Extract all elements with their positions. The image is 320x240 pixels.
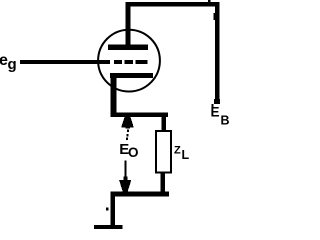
voltage arrow EO lower head: [119, 177, 131, 192]
cathode of V1: [110, 73, 153, 117]
label EB: [211, 104, 230, 128]
voltage arrow EO lower stem: [124, 161, 126, 180]
voltage arrow EO upper dashed stem: [126, 130, 129, 141]
scan artifact tick ground stem: [106, 208, 108, 211]
label ZL: [174, 145, 190, 163]
wire bottom (cathode return): [111, 191, 169, 196]
resistor ZL bottom lead: [160, 174, 165, 193]
voltage arrow EO upper head: [121, 117, 134, 129]
ground lead wire: [111, 196, 116, 226]
label eg: [0, 52, 17, 73]
scan artifact tick top: [208, 0, 211, 2]
resistor ZL top lead: [161, 117, 166, 131]
plate lead wire: [126, 2, 131, 46]
svg-text:B: B: [221, 114, 230, 128]
wire right vertical to EB terminal: [214, 2, 220, 104]
svg-text:g: g: [8, 56, 17, 73]
wire cathode node horizontal: [111, 112, 169, 117]
grid lead wire from eg: [20, 60, 110, 64]
grid (dashed) of V1: [114, 60, 148, 64]
scan artifact blob right wire: [213, 13, 215, 20]
plate (anode) of V1: [108, 45, 148, 51]
vacuum tube V1 envelope: [98, 30, 160, 92]
ground: [94, 225, 123, 229]
svg-text:L: L: [182, 148, 190, 162]
resistor ZL: [156, 131, 171, 172]
svg-text:O: O: [128, 145, 139, 160]
label EO: [119, 141, 138, 160]
svg-text:Z: Z: [174, 145, 181, 157]
wire top (plate to supply): [126, 2, 220, 7]
